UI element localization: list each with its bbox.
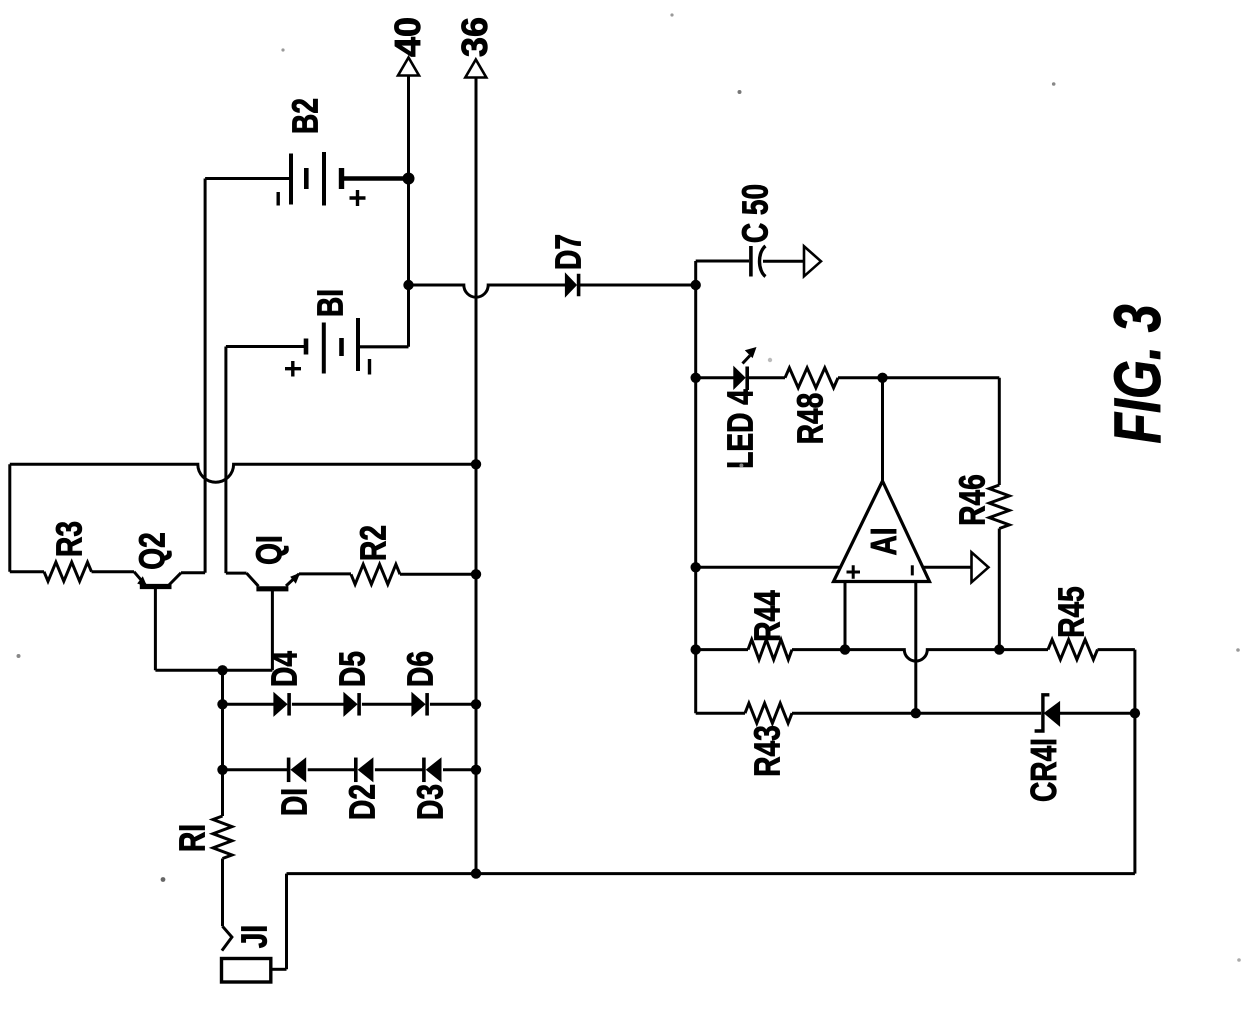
op-amp A1 <box>834 481 930 582</box>
svg-text:R48: R48 <box>790 393 830 444</box>
node rail / plus input line <box>691 562 701 572</box>
battery B1 plates <box>304 339 309 355</box>
svg-text:AI: AI <box>863 527 903 555</box>
wire plus input lead down <box>844 582 847 650</box>
wire R48 to output node <box>838 376 883 379</box>
wire Q2 collector <box>181 571 205 574</box>
resistor R3 <box>44 562 92 581</box>
node D3 / rail 36 <box>471 765 481 775</box>
wire CR41 to right rail <box>1060 712 1135 715</box>
node rail / R44 line <box>691 644 701 654</box>
svg-text:LED 4: LED 4 <box>720 389 760 469</box>
wire R45 to right rail <box>1098 648 1135 651</box>
wire to C50 <box>696 260 749 263</box>
terminal arrow 40 <box>398 58 419 76</box>
node minus lead / R43 line <box>911 708 921 718</box>
node rail / LED line <box>691 373 701 383</box>
diode D5 <box>344 693 357 716</box>
wire R3 top line with hop over battery feeders <box>10 464 476 482</box>
wire Q2 base lead <box>154 589 157 671</box>
wire R44 to plus lead <box>792 648 845 651</box>
B2 minus sign <box>277 192 280 206</box>
wire to CR41 <box>916 712 1041 715</box>
resistor R46 <box>989 485 1009 529</box>
transistor Q1 <box>256 586 288 591</box>
node R46 / R44 line <box>994 644 1004 654</box>
wire rail to terminal 40 <box>407 76 410 347</box>
svg-text:R44: R44 <box>747 590 787 642</box>
svg-text:36: 36 <box>454 17 495 57</box>
wire Q1 collector <box>226 572 247 575</box>
svg-text:JI: JI <box>234 925 274 948</box>
wire plus input line <box>696 566 841 569</box>
resistor R1 <box>213 816 232 859</box>
capacitor C50 <box>749 246 753 277</box>
node CR41 / right rail <box>1130 708 1140 718</box>
node top line / rail 36 <box>471 459 481 469</box>
wire R3 to Q2 emitter <box>92 570 135 573</box>
wire down to D1 line <box>221 704 224 770</box>
wire D5 to D6 <box>362 703 412 706</box>
wire feedback down to R46 <box>998 378 1001 485</box>
B1 plus sign <box>285 361 301 377</box>
wire B2 negative lead <box>205 177 289 180</box>
svg-text:D7: D7 <box>548 234 588 270</box>
svg-text:R3: R3 <box>49 521 89 557</box>
resistor R45 <box>1048 640 1098 660</box>
diode D3 <box>422 758 426 783</box>
op-amp minus marking <box>911 565 914 575</box>
diode D4 <box>274 693 287 716</box>
svg-text:FIG. 3: FIG. 3 <box>1101 304 1174 443</box>
svg-text:Q2: Q2 <box>132 532 172 569</box>
svg-text:R45: R45 <box>1051 586 1091 638</box>
wire base tie down to D4 line <box>221 670 224 704</box>
svg-text:D2: D2 <box>342 784 382 820</box>
wire minus input lead down <box>914 582 917 714</box>
terminal arrow op-amp output <box>972 552 989 582</box>
node rail 40 / D7 line <box>403 280 413 290</box>
wire R43 to minus lead <box>792 712 916 715</box>
jack J1 body <box>222 959 271 983</box>
wire D4 to D5 <box>292 703 344 706</box>
wire R44 line with hop over minus lead <box>845 650 999 662</box>
svg-text:B2: B2 <box>285 98 325 134</box>
wire to R3 <box>10 570 44 573</box>
wire R46 to R44 line <box>998 529 1001 650</box>
speckles (scan noise) <box>670 13 673 16</box>
svg-text:D4: D4 <box>264 651 304 687</box>
wire Q1/Q2 base tie <box>155 669 272 672</box>
wire C50 to ground arrow <box>763 260 804 263</box>
wire R2 to rail 36 <box>400 573 476 576</box>
battery B2 plates <box>289 154 293 205</box>
resistor R2 <box>351 564 400 584</box>
svg-text:RI: RI <box>172 824 212 852</box>
wire D1 to D2 <box>308 768 356 771</box>
wire D6 to rail 36 <box>430 703 476 706</box>
wire right rail down to bottom return <box>1133 650 1136 874</box>
node D6 / rail 36 <box>471 699 481 709</box>
B1 minus sign <box>368 359 371 375</box>
wire LED to R48 <box>747 376 785 379</box>
terminal arrow 36 <box>465 60 486 78</box>
wire D7 to op-amp rail <box>580 284 696 287</box>
svg-text:DI: DI <box>274 788 314 816</box>
wire rail to terminal 36 <box>475 77 478 874</box>
wire to LED 4 <box>696 376 734 379</box>
wire op-amp output <box>923 566 971 569</box>
svg-text:R2: R2 <box>353 525 393 561</box>
zener diode CR41 <box>1035 695 1050 731</box>
wire D2 to D3 <box>375 768 424 771</box>
wire to D1 <box>223 768 289 771</box>
diode D2 <box>354 758 358 783</box>
node D1 line left <box>217 765 227 775</box>
node R2 / rail 36 <box>471 569 481 579</box>
node R48 / op-amp output feedback <box>877 373 887 383</box>
wire to D4 <box>223 703 274 706</box>
node D7 / op-amp rail <box>691 280 701 290</box>
svg-text:40: 40 <box>387 17 428 57</box>
node plus lead / R44 line <box>840 644 850 654</box>
wire to R45 <box>999 648 1048 651</box>
wire left side down to R3 <box>8 464 11 571</box>
wire R1 to J1 tip <box>221 859 224 927</box>
jack J1 tip contact <box>222 926 232 950</box>
LED 4 <box>734 367 745 389</box>
wire bottom return <box>287 872 1135 875</box>
svg-text:R46: R46 <box>952 474 992 525</box>
wire B2 positive lead <box>342 176 409 181</box>
wire rail to R43 <box>696 712 745 715</box>
wire Q1 emitter to R2 <box>299 572 351 575</box>
diode D1 <box>287 758 291 783</box>
diode D7 <box>565 274 576 297</box>
wire J1 riser <box>285 874 288 970</box>
wire D3 to rail 36 <box>443 768 476 771</box>
wire op-amp top to LED line <box>881 378 884 481</box>
resistor R43 <box>745 703 792 723</box>
wire B1 plus down to Q1 collector <box>224 347 227 574</box>
svg-text:D3: D3 <box>410 784 450 820</box>
svg-text:D5: D5 <box>332 651 372 687</box>
wire rail 40 to D7 with hop over rail 36 <box>409 285 566 297</box>
wire op-amp left rail <box>694 261 697 713</box>
wire B1 negative lead <box>358 345 409 348</box>
wire to R44 <box>696 648 748 651</box>
wire B2 minus down to Q2 collector <box>204 179 207 573</box>
svg-text:QI: QI <box>249 535 289 565</box>
wire D1 line down to R1 <box>221 770 224 816</box>
svg-text:CR4I: CR4I <box>1023 738 1063 802</box>
wire feedback top <box>883 376 1000 379</box>
svg-text:BI: BI <box>310 289 350 317</box>
diode D6 <box>412 693 425 716</box>
svg-text:R43: R43 <box>747 725 787 776</box>
terminal arrow after C50 <box>804 246 821 276</box>
svg-text:C 50: C 50 <box>735 184 775 243</box>
B2 plus sign <box>350 190 366 206</box>
resistor R48 <box>785 368 838 388</box>
node D4 line left <box>217 699 227 709</box>
node B2 / rail 40 <box>403 173 415 185</box>
transistor Q2 <box>140 584 172 589</box>
resistor R44 <box>748 640 792 660</box>
op-amp plus marking <box>847 565 861 579</box>
wire J1 body out <box>271 968 287 971</box>
svg-text:D6: D6 <box>400 651 440 687</box>
wire B1 positive lead <box>226 345 306 348</box>
wire Q1 base lead <box>271 589 274 671</box>
node base tie / diode string <box>217 665 227 675</box>
node bottom return / rail 36 <box>471 868 481 878</box>
